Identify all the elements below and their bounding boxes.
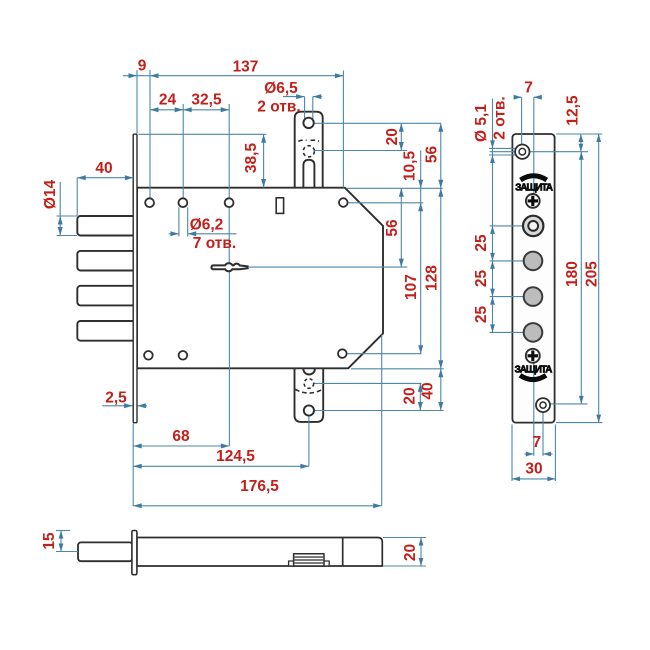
ext faceplate bottom left (132, 424, 134, 507)
leader body bottom corner (351, 368, 444, 370)
dim 205 line (598, 134, 600, 423)
leader bottom tab dashed hole (314, 382, 422, 384)
arrow 107 bottom (418, 345, 423, 354)
arrows 7 top (514, 95, 522, 100)
vdim 20 bottom-right (419, 383, 421, 410)
leader hole C (490, 296, 524, 298)
deadbolt 3 (77, 286, 135, 306)
bottom tab dashed arc (295, 389, 322, 393)
center axis line top (533, 97, 535, 194)
arrows 32.5 (183, 107, 192, 112)
svg-text:10,5: 10,5 (401, 151, 418, 182)
svg-text:24: 24 (159, 91, 177, 108)
svg-text:56: 56 (424, 146, 441, 164)
ext top hole axis (521, 97, 523, 145)
d6.2 edge ticks (178, 207, 180, 236)
hole bottom right (338, 349, 347, 358)
dim 2.5 (102, 405, 132, 407)
dim 15 ticks (56, 530, 70, 532)
dim 124.5 (133, 465, 309, 467)
arrows 25 a (490, 226, 495, 234)
dim 15 line (60, 531, 62, 552)
svg-text:20: 20 (384, 128, 401, 145)
leader bottom right hole (347, 353, 422, 355)
keyway axis ext down (228, 272, 230, 447)
bottom screw hole (536, 398, 550, 412)
top hole axis leader (490, 151, 588, 153)
arrows 20 top (399, 123, 404, 132)
svg-text:ЗАЩИТА: ЗАЩИТА (515, 365, 553, 376)
arrows 2.5 (124, 403, 133, 408)
hole top right (339, 198, 348, 207)
svg-text:12,5: 12,5 (565, 95, 582, 126)
arrows d6.2 (170, 231, 179, 236)
tab slot stadium (303, 160, 314, 188)
vdim 128 (440, 188, 442, 368)
bolt hole B (524, 252, 543, 271)
bottom tab half circle (303, 369, 315, 375)
arrow 137 right (335, 73, 344, 78)
hole bottom row 1 (144, 351, 153, 360)
dim 7 top line (514, 96, 522, 98)
dim 20 line (420, 538, 422, 567)
top screw hole with countersink (515, 145, 529, 159)
tab dashed segments (298, 140, 306, 141)
svg-text:56: 56 (384, 219, 401, 237)
plate bottom tick (556, 422, 602, 424)
svg-text:25: 25 (473, 306, 490, 324)
hole top row 2 (179, 198, 188, 207)
svg-text:68: 68 (172, 428, 190, 445)
leader bottom hole axis (550, 403, 588, 405)
arrows 10.5 outside (418, 180, 423, 189)
arrows d14 (58, 216, 63, 225)
svg-text:20: 20 (402, 544, 419, 561)
ext bottom hole down (542, 412, 544, 456)
vdim 20 top (400, 123, 402, 150)
svg-text:7 отв.: 7 отв. (193, 235, 236, 252)
faceplate bar profile (132, 531, 137, 575)
latch detail (289, 561, 330, 566)
arrows 56 lower (399, 188, 404, 197)
arrows 15 (59, 531, 64, 539)
plate top tick (556, 133, 602, 135)
svg-text:15: 15 (41, 532, 58, 550)
tab dashed circle (303, 146, 314, 157)
arrows 12.5 (579, 134, 584, 142)
svg-text:25: 25 (473, 234, 490, 252)
leader hole D (490, 331, 524, 333)
vdim 107 (420, 203, 422, 354)
dim d14 vertical (59, 182, 61, 236)
arrows d5.1 outside (490, 140, 495, 148)
logo top (521, 176, 547, 180)
arrows 38.5 (261, 134, 266, 143)
svg-text:2 отв.: 2 отв. (257, 98, 300, 115)
arrows 20 bottom-right (418, 383, 423, 392)
vdim 56 lower (400, 188, 402, 267)
hole bottom row 2 (179, 351, 188, 360)
leader bottom tab hole (314, 410, 443, 412)
svg-text:20: 20 (402, 387, 419, 404)
arrows 180 (579, 152, 584, 160)
svg-text:7: 7 (532, 434, 541, 451)
svg-text:Ø6,2: Ø6,2 (190, 217, 224, 234)
dim 30 line (512, 478, 555, 480)
svg-text:180: 180 (564, 261, 581, 287)
hole top row 1 (145, 198, 154, 207)
svg-text:ЗАЩИТА: ЗАЩИТА (515, 183, 553, 194)
d14 tick bottom (57, 235, 78, 237)
vdim 10.5 (420, 151, 422, 210)
center axis line bottom (533, 362, 535, 456)
arrows 40 left (77, 175, 86, 180)
dim 12.5 line (580, 134, 582, 152)
arrows 205 (596, 134, 601, 142)
lock body outline (137, 188, 383, 369)
ext plate bottom right (554, 425, 556, 482)
vdim 40 bottom-right (440, 369, 442, 411)
svg-text:9: 9 (138, 58, 147, 75)
screw 2 (526, 349, 540, 363)
svg-text:Ø 5,1: Ø 5,1 (473, 104, 490, 142)
top mounting tab (295, 112, 323, 189)
arrows 9 (129, 73, 138, 78)
arrows 56 upper (438, 123, 443, 132)
ext line hole col 1 (149, 70, 151, 198)
d5.1 tick top (489, 147, 519, 149)
svg-text:40: 40 (420, 382, 437, 399)
dim 68 (133, 445, 229, 447)
svg-text:128: 128 (424, 265, 441, 291)
ext line faceplate top long (139, 133, 267, 135)
arrows 176.5 (133, 503, 142, 508)
division line (342, 538, 344, 567)
dim 7 bottom line (525, 453, 534, 455)
bolt hole D (524, 323, 543, 342)
small rectangular slot (276, 198, 283, 214)
svg-text:2,5: 2,5 (105, 390, 127, 407)
ext bolt1 left (76, 178, 78, 216)
ext bottom tab hole axis (308, 416, 310, 466)
bolt hole A ringed (523, 216, 543, 236)
arrows 7 bottom (526, 452, 534, 457)
arrows 24 (150, 107, 159, 112)
ext body right edge down (381, 335, 383, 506)
arrows d6.5 (296, 94, 305, 99)
svg-text:205: 205 (584, 261, 601, 287)
screw 1 (526, 194, 540, 208)
arrows 25 b (490, 261, 495, 269)
bolt hole C (524, 287, 543, 306)
bottom tab hole (304, 405, 314, 415)
arrows 68 (133, 444, 142, 449)
dim 9/137 line (123, 75, 343, 77)
vdim 56 upper (440, 123, 442, 188)
arrows 25 c (490, 297, 495, 305)
leader top right hole (348, 202, 424, 204)
ext line hole col 3 / keyway axis (228, 104, 230, 263)
d5.1 tick bottom (489, 154, 519, 156)
arrows 40 bottom-right (438, 369, 443, 378)
bolt profile (78, 542, 133, 561)
deadbolt 4 (77, 321, 135, 341)
arrows 20 profile (419, 538, 424, 546)
svg-text:7: 7 (524, 80, 533, 97)
bottom tab dashed circle (304, 379, 314, 389)
dim 20 ticks (383, 537, 426, 539)
svg-text:40: 40 (95, 160, 112, 177)
d6.5 drop ticks (304, 97, 306, 123)
svg-text:2 отв.: 2 отв. (492, 96, 509, 139)
leader body top corner (347, 187, 443, 189)
dim d6.5 line (283, 96, 305, 98)
svg-text:137: 137 (233, 59, 259, 76)
dim 38.5 vertical (263, 134, 265, 187)
arrows 30 (512, 477, 520, 482)
svg-text:Ø6,5: Ø6,5 (264, 80, 298, 97)
svg-text:176,5: 176,5 (240, 478, 279, 495)
ext plate bottom left (511, 425, 513, 482)
dim 24/32.5 line (150, 109, 229, 111)
ext line hole col 2 (182, 104, 184, 198)
svg-text:38,5: 38,5 (243, 143, 260, 174)
leader hole B (490, 260, 524, 262)
dim 180 line (580, 152, 582, 404)
dim 176.5 (133, 505, 382, 507)
plate outline (512, 134, 554, 423)
svg-text:30: 30 (525, 461, 542, 478)
faceplate edge strip (133, 134, 137, 423)
d14 tick top (57, 215, 78, 217)
keyway profile (211, 263, 247, 271)
hole top row 3 (225, 198, 234, 207)
arrows 124.5 (133, 464, 142, 469)
ext line faceplate right (136, 70, 138, 134)
arrows 128 (438, 188, 443, 197)
tab hole top (303, 118, 313, 128)
leader dashed circle (315, 150, 408, 152)
svg-text:Ø14: Ø14 (42, 179, 59, 209)
svg-text:107: 107 (403, 274, 420, 300)
svg-text:124,5: 124,5 (216, 448, 255, 465)
deadbolt 1 (77, 216, 135, 236)
d6.2 dim line (169, 233, 179, 235)
leader hole A (490, 225, 524, 227)
leader tab hole (314, 122, 441, 124)
deadbolt 2 (77, 251, 135, 271)
svg-text:32,5: 32,5 (191, 91, 222, 108)
body profile (137, 538, 382, 567)
ext line body corner (342, 71, 344, 188)
dim 40 left (77, 177, 133, 179)
bottom mounting tab (295, 367, 324, 422)
keyway leader (249, 266, 407, 268)
svg-text:25: 25 (473, 270, 490, 288)
d5.1 dim vertical (492, 99, 494, 333)
